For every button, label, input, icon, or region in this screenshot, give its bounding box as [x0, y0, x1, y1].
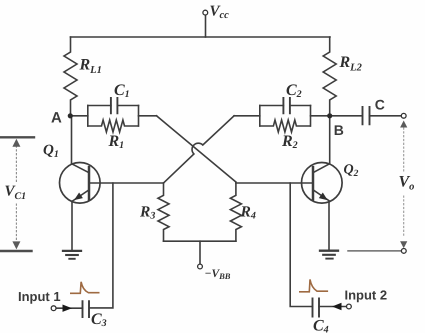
svg-text:C4: C4 [313, 318, 329, 333]
wire output ground reference [348, 250, 402, 252]
wire top rail [71, 36, 331, 38]
svg-text:R1: R1 [108, 133, 125, 151]
capacitor C3 [83, 301, 90, 317]
svg-text:R4: R4 [240, 204, 256, 222]
svg-text:B: B [334, 122, 344, 138]
svg-text:VC1: VC1 [5, 184, 27, 203]
node B [327, 113, 332, 118]
wire node B to R2C2 box [311, 115, 330, 117]
svg-text:Input 1: Input 1 [18, 289, 61, 304]
svg-text:Input 2: Input 2 [345, 288, 388, 303]
VC1 measure dotted arrow [12, 139, 20, 250]
svg-text:C: C [375, 97, 385, 113]
wire input1 to C3 [56, 307, 83, 309]
input 2 arrow [332, 303, 342, 310]
capacitor C4 [313, 299, 320, 317]
Vo measure dotted arrow [400, 121, 407, 249]
ground (Q2 emitter) [320, 251, 338, 259]
wire node A to R1C1 box [70, 115, 88, 117]
svg-text:C3: C3 [91, 311, 107, 329]
wire cross diagonal right with hop (R2 to base of Q1) [164, 116, 235, 183]
wire R3 R4 bottom join [164, 240, 236, 242]
svg-text:RL1: RL1 [79, 57, 102, 77]
wire box left edge [87, 106, 89, 127]
VC1 measure bars [0, 137, 34, 251]
wire trigger 1 riser (C3 to base of Q1) [90, 183, 113, 308]
svg-text:C1: C1 [114, 82, 130, 100]
terminal Vcc [203, 10, 208, 15]
terminal -VBB [198, 264, 203, 269]
wire input2 to C4 [319, 306, 347, 308]
resistor RL1 [64, 37, 77, 116]
capacitor C [363, 107, 370, 124]
svg-text:−VBB: −VBB [205, 268, 231, 281]
wire cross diagonal left (R1 to base of Q2) [157, 116, 236, 182]
wire -VBB tap [199, 241, 201, 264]
svg-text:RL2: RL2 [339, 54, 363, 74]
resistor R1 (bottom branch of box) [88, 120, 139, 132]
svg-text:Vo: Vo [399, 174, 415, 193]
wire Vcc stub [205, 15, 207, 37]
wire box right edge [138, 106, 140, 127]
wire R2C2 to cross [234, 115, 260, 117]
input 1 arrow [63, 305, 73, 312]
resistor RL2 [323, 37, 336, 116]
resistor R2 (bottom branch of box) [260, 120, 310, 132]
wire base Q1 to R3 node [89, 182, 164, 184]
trigger pulse 1 [71, 282, 99, 294]
wire node B to capacitor C [330, 115, 362, 117]
capacitor C2 (top branch of box) [260, 105, 311, 107]
wire box2 right edge [310, 106, 312, 127]
capacitor C1 (top branch of box) [88, 105, 139, 107]
terminal output top [401, 113, 406, 118]
wire box2 left edge [259, 106, 261, 127]
terminal output bottom [401, 249, 406, 254]
terminal input 1 [51, 306, 56, 311]
svg-text:R3: R3 [139, 204, 155, 222]
svg-text:Q2: Q2 [344, 163, 359, 180]
svg-text:Q1: Q1 [43, 143, 59, 161]
wire trigger 2 riser (C4 to base of Q2) [290, 183, 312, 307]
wire base Q2 to R4 node [236, 182, 313, 184]
trigger pulse 2 [300, 279, 328, 291]
wire R1C1 to cross [139, 115, 157, 117]
svg-text:R2: R2 [281, 133, 298, 151]
svg-text:Vcc: Vcc [210, 4, 230, 22]
ground (Q1 emitter) [63, 251, 81, 259]
svg-text:C2: C2 [286, 82, 302, 100]
wire C to output terminal [370, 115, 402, 117]
node A [68, 113, 73, 118]
resistor R3 [158, 183, 169, 241]
svg-text:A: A [51, 109, 62, 126]
transistor Q1 [60, 116, 101, 251]
terminal input 2 [347, 304, 352, 309]
resistor R4 [230, 183, 241, 241]
transistor Q2 [302, 116, 343, 251]
